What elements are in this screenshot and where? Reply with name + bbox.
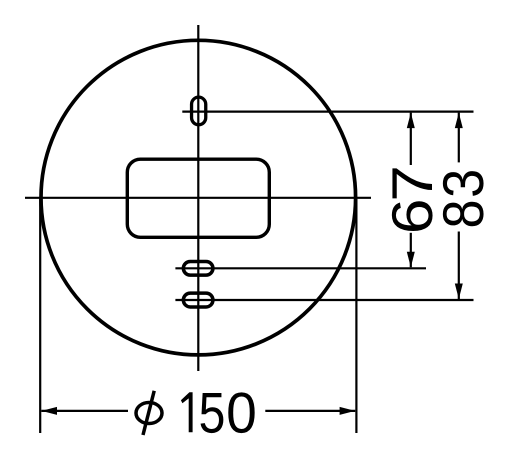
top slot reference line xyxy=(182,110,473,112)
arrowhead 83 down xyxy=(455,284,463,300)
right extension line xyxy=(355,198,357,433)
svg-text:0: 0 xyxy=(226,382,257,446)
diameter symbol phi ring xyxy=(136,403,162,424)
arrowhead diameter left xyxy=(42,407,58,415)
diameter dimension line right segment xyxy=(265,410,355,412)
vertical center line xyxy=(197,25,199,371)
lower slot reference line xyxy=(175,299,473,301)
mounting plate outline circle xyxy=(41,40,356,355)
arrowhead 67 down xyxy=(407,252,415,267)
dimension line 83 upper segment xyxy=(458,113,460,163)
svg-text:8: 8 xyxy=(432,199,496,228)
dimension line 67 lower segment xyxy=(410,233,412,267)
dimension line 83 lower segment xyxy=(458,232,460,300)
arrowhead diameter right xyxy=(340,407,356,415)
central rounded-rectangle opening xyxy=(127,159,269,237)
arrowhead 83 up xyxy=(455,113,463,129)
dimension text 83 (rotated) xyxy=(432,169,496,229)
diameter symbol phi slash xyxy=(143,391,154,435)
dimension text 67 (rotated) xyxy=(381,165,445,234)
middle slot reference line xyxy=(175,267,426,269)
dimension line 67 upper segment xyxy=(410,113,412,165)
top mounting slot (vertical stadium) xyxy=(192,97,206,125)
left extension line xyxy=(39,198,41,433)
svg-text:5: 5 xyxy=(199,382,226,446)
dimension text 150 xyxy=(181,382,257,446)
middle mounting slot (horizontal stadium) xyxy=(183,261,213,275)
horizontal center line xyxy=(25,197,371,199)
diameter dimension line left segment xyxy=(41,410,128,412)
lower mounting slot (horizontal stadium) xyxy=(183,293,213,307)
arrowhead 67 up xyxy=(407,113,415,129)
svg-text:3: 3 xyxy=(432,169,496,198)
